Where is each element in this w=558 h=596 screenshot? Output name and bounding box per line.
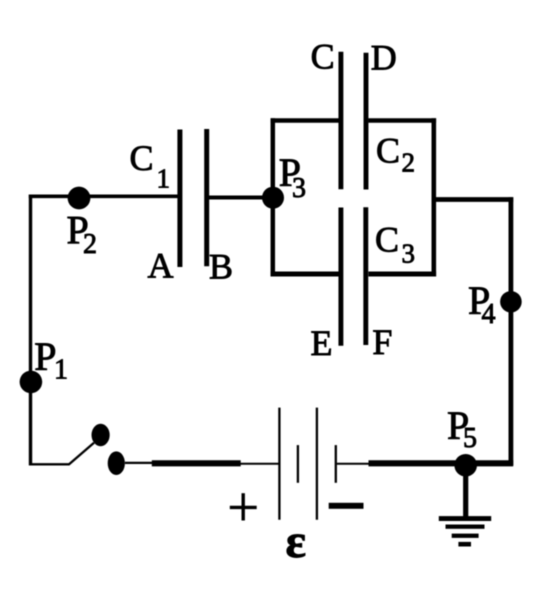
label C1 <box>130 138 171 193</box>
label P2 <box>67 207 98 260</box>
node P1 <box>20 371 43 394</box>
svg-text:D: D <box>371 38 397 78</box>
svg-text:3: 3 <box>402 239 416 269</box>
label P3 <box>279 150 306 204</box>
battery plus sign <box>230 493 257 520</box>
switch <box>29 424 153 475</box>
capacitor C1 plate A <box>177 130 182 268</box>
wire: right vertical <box>508 197 513 465</box>
battery <box>240 408 369 520</box>
svg-text:F: F <box>372 322 392 362</box>
wire: box bottom edge left part <box>271 272 339 277</box>
wire: bottom thick left segment <box>152 460 241 466</box>
svg-text:A: A <box>148 246 174 286</box>
wire: left vertical <box>29 195 32 466</box>
label P4 <box>468 278 496 330</box>
wire: box bottom edge right part <box>368 272 436 277</box>
svg-text:C: C <box>311 37 335 77</box>
capacitor C3 plate E <box>338 208 343 346</box>
wire: bottom thick right segment <box>369 460 514 466</box>
wire: box top edge left part <box>271 118 339 123</box>
node P3 <box>262 187 284 209</box>
svg-text:4: 4 <box>482 299 496 330</box>
wire: box top edge right part <box>368 118 436 123</box>
svg-text:C: C <box>376 130 400 170</box>
svg-text:B: B <box>209 247 233 287</box>
capacitor C3 plate F <box>363 207 368 345</box>
label C2 <box>376 130 415 177</box>
label P1 <box>34 334 68 386</box>
ground <box>439 465 491 547</box>
wire: box left edge <box>271 118 276 276</box>
svg-text:2: 2 <box>402 147 416 177</box>
svg-text:1: 1 <box>157 163 171 193</box>
node P5 <box>454 454 477 477</box>
svg-text:ε: ε <box>285 515 306 568</box>
svg-text:C: C <box>375 220 399 260</box>
wire: box right edge <box>431 118 436 276</box>
svg-text:3: 3 <box>292 173 306 204</box>
svg-text:2: 2 <box>83 229 97 260</box>
wire: box right edge to right vertical <box>434 197 513 202</box>
capacitor C1 plate B <box>204 129 209 266</box>
svg-text:E: E <box>311 323 333 363</box>
capacitor C2 plate D <box>364 53 369 190</box>
node P4 <box>500 291 522 313</box>
svg-text:5: 5 <box>463 423 477 454</box>
battery minus sign <box>329 503 364 509</box>
wire: plate B to P3 <box>209 196 273 200</box>
svg-text:1: 1 <box>54 355 68 386</box>
node P2 <box>68 187 91 210</box>
label P5 <box>447 403 477 454</box>
svg-text:C: C <box>130 138 154 178</box>
label C3 <box>375 220 415 269</box>
wire: top horizontal from corner to plate A <box>29 195 178 199</box>
capacitor C2 plate C <box>338 52 343 190</box>
